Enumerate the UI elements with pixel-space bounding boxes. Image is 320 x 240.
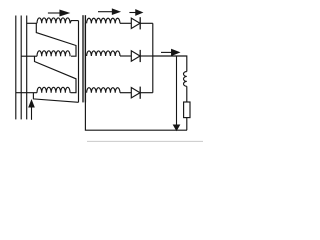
transformer core right bar [84, 15, 86, 102]
wire S2 to diode D2 [120, 55, 131, 57]
arrow diode current above D1 [129, 12, 136, 14]
inductor L (load) [184, 72, 187, 87]
arrow voltage vd (down) [176, 56, 178, 125]
diode D1 [131, 18, 140, 28]
wire cathode bus [152, 23, 154, 92]
wire resistor to bottom [186, 118, 188, 131]
primary winding P2 [37, 51, 70, 56]
arrow input phase (up) [31, 107, 33, 120]
phase line 2 [20, 16, 22, 120]
transformer core left bar [82, 15, 84, 102]
wire delta link P1.left to P2.right (diagonal) [36, 23, 76, 56]
wire phase2 to primary winding 2 [21, 55, 37, 57]
arrow current i1 above primary P1 [48, 12, 60, 14]
wire P1 right end to wrap [70, 21, 79, 24]
wire delta link P2.left to P3.right (diagonal) [35, 56, 77, 92]
wire phase3 to primary winding 1 [27, 22, 37, 24]
wire delta link P3.left to P1.right (diagonal) [33, 93, 78, 103]
diode D2 [131, 51, 140, 61]
wire inductor to resistor [186, 86, 188, 102]
wire S1 to diode D1 [120, 22, 131, 24]
secondary winding S3 [87, 88, 120, 93]
primary winding P1 [37, 18, 70, 23]
secondary winding S1 [87, 18, 120, 23]
wire secondary neutral bus [85, 23, 187, 130]
secondary winding S2 [87, 51, 120, 56]
primary winding P3 [37, 87, 70, 92]
phase line 1 [15, 16, 17, 120]
wire D1 to cathode bus [140, 22, 153, 24]
phase line 3 [26, 16, 28, 120]
wire S3 to diode D3 [120, 92, 131, 94]
wire output to load [153, 56, 187, 72]
arrow current id above output wire [161, 51, 172, 53]
page rule artifact [87, 140, 203, 142]
wire D2 to cathode bus [140, 55, 153, 57]
wire wrap vertical (P1 end to delta return) [78, 21, 80, 103]
diode D3 [131, 88, 140, 98]
wire D3 to cathode bus [140, 92, 153, 94]
arrow current i2 above secondary S1 [98, 11, 113, 13]
resistor R (load) [184, 102, 190, 118]
wire phase1 to primary winding 3 [16, 92, 37, 94]
